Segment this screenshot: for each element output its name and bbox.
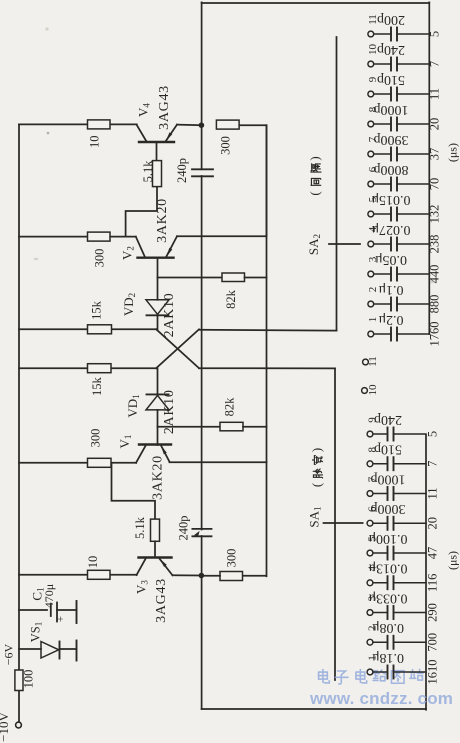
capacitor 240p lower plate2 <box>192 535 211 537</box>
svg-text:6: 6 <box>367 166 379 172</box>
svg-text:11: 11 <box>367 356 379 367</box>
wire C1 to ground bar <box>57 609 77 611</box>
svg-text:20: 20 <box>425 517 439 530</box>
resistor 15k (lower) <box>88 364 112 373</box>
label -6V <box>1 643 15 665</box>
label value 0.08u (SA1) <box>372 620 404 635</box>
label value 0.18u (SA1) <box>372 650 404 665</box>
transistor V4 emitter arrow <box>166 132 173 141</box>
svg-text:9: 9 <box>367 417 379 423</box>
label + (C1 polarity) <box>55 616 67 622</box>
label 82k (upper) <box>224 289 238 309</box>
capacitor 0.027u SA2 position 4 <box>368 238 429 251</box>
capacitor 0.100u SA1 position 5 <box>367 547 426 560</box>
svg-text:5.1k: 5.1k <box>133 516 147 539</box>
svg-text:47: 47 <box>425 547 439 560</box>
wire node B to 300 <box>202 575 220 577</box>
label 300 <box>92 249 106 268</box>
label 300 (V4 load) <box>219 136 233 155</box>
label pin 1 (SA1) <box>367 655 379 661</box>
resistor 300 (V4 emitter load) <box>216 120 239 129</box>
label value 0.027u (SA2) <box>371 222 410 237</box>
label pin 9 (SA2) <box>367 76 379 82</box>
svg-text:11: 11 <box>427 88 441 100</box>
label value 0.2u (SA2) <box>378 312 403 327</box>
wire bottom frame <box>202 708 426 710</box>
label 3AG43 (V3) <box>154 578 169 623</box>
svg-text:11: 11 <box>367 14 379 25</box>
label scale 20 us (SA1) <box>425 517 439 530</box>
label value 0.033u (SA1) <box>368 590 407 605</box>
label 2AK10 (VD1) <box>162 389 177 434</box>
label 3AK20 (V1) <box>151 455 166 500</box>
wire V4 row right (to junction node A) <box>177 124 202 127</box>
label scale 47 us (SA1) <box>425 547 439 560</box>
label value 510p (SA2) <box>377 72 405 87</box>
diode VS1 cathode bar <box>59 642 61 659</box>
label value 3900p (SA2) <box>374 132 409 147</box>
label 240p (lower) <box>176 516 190 541</box>
label pin 11 (SA1 open) <box>367 356 379 367</box>
capacitor 240p SA2 position 10 <box>368 58 429 71</box>
label scale 116 us (SA1) <box>425 574 439 592</box>
wire 300 to emitter bus (bottom corner) <box>243 575 267 577</box>
label pin 4 (SA1) <box>367 566 379 572</box>
svg-text:70: 70 <box>427 178 441 191</box>
capacitor 240p lower tick <box>194 531 200 536</box>
svg-text:10: 10 <box>87 135 101 148</box>
label pin 7 (SA2) <box>367 136 379 142</box>
node SA1 open position 11 circle <box>363 359 369 365</box>
capacitor 1000p SA2 position 8 <box>368 118 429 131</box>
label 10 (V3) <box>86 556 100 569</box>
svg-text:300: 300 <box>225 549 239 568</box>
wire left rail below resistor 100 <box>18 691 20 723</box>
svg-text:0.05μ: 0.05μ <box>375 252 407 267</box>
label pin 10 (SA1 open) <box>367 384 379 396</box>
node junction dot B (V3 emitter / long rail / 300) <box>199 573 205 579</box>
label scale 132 us (SA2) <box>427 205 441 224</box>
svg-text:www. cndzz. com: www. cndzz. com <box>309 689 453 708</box>
resistor 300 (V3 emitter load) <box>220 572 243 581</box>
label value 240p (SA2) <box>377 42 405 57</box>
svg-text:82k: 82k <box>224 289 238 309</box>
label scale 880 us (SA2) <box>427 295 441 314</box>
svg-text:290: 290 <box>425 603 439 622</box>
wire SA2 capacitor bus (right edge, top bank) <box>428 2 430 334</box>
watermark text line 1 (dianzidianlutuzhan) <box>319 669 424 684</box>
svg-text:300: 300 <box>219 136 233 155</box>
label 3AK20 (V2) <box>155 198 170 243</box>
svg-text:1760: 1760 <box>427 322 441 347</box>
transistor V1 emitter lead <box>161 445 170 462</box>
svg-text:200p: 200p <box>377 12 405 27</box>
label V3 <box>133 580 149 594</box>
capacitor C1 plate2 (long) <box>56 603 58 622</box>
svg-text:3: 3 <box>367 256 379 262</box>
svg-text:15k: 15k <box>90 376 104 396</box>
label pin 2 (SA2) <box>367 287 379 293</box>
label scale 20 us (SA2) <box>427 118 441 131</box>
label pin 6 (SA1) <box>367 506 379 512</box>
resistor 82k (upper) <box>222 273 245 282</box>
capacitor 240p upper plate2 <box>192 175 213 177</box>
resistor 15k (upper) <box>88 325 112 334</box>
wire VS1 to ground bar <box>60 648 77 650</box>
svg-text:8: 8 <box>367 106 379 112</box>
label pin 5 (SA1) <box>367 536 379 542</box>
label 82k (lower) <box>222 397 236 417</box>
transistor V3 emitter arrow <box>160 559 167 568</box>
capacitor 8000p SA2 position 6 <box>368 178 429 191</box>
wire top frame (emitter common net, top edge) <box>202 2 430 4</box>
svg-text:6: 6 <box>367 506 379 512</box>
label VD2 <box>121 293 137 316</box>
label pin 2 (SA1) <box>367 625 379 631</box>
svg-text:4: 4 <box>367 566 379 572</box>
resistor 82k (lower) <box>220 422 243 431</box>
label 2AK10 (VD2) <box>162 293 177 338</box>
svg-text:2: 2 <box>367 287 379 293</box>
svg-text:2: 2 <box>367 625 379 631</box>
resistor 300 (V1 collector row) <box>88 458 112 467</box>
capacitor 0.033u SA1 position 3 <box>367 606 426 619</box>
svg-text:3AG43: 3AG43 <box>157 85 172 130</box>
label C1 <box>29 587 45 600</box>
svg-text:5: 5 <box>367 196 379 202</box>
label 240p (upper) <box>175 158 189 183</box>
svg-text:240p: 240p <box>175 158 189 183</box>
label 300 (V1) <box>88 429 102 448</box>
svg-text:2AK10: 2AK10 <box>162 293 177 338</box>
svg-text:300: 300 <box>88 429 102 448</box>
svg-text:−10V: −10V <box>0 712 11 742</box>
svg-text:5.1k: 5.1k <box>141 160 155 183</box>
label pin 7 (SA1) <box>367 476 379 482</box>
svg-text:4: 4 <box>367 226 379 232</box>
svg-text:10: 10 <box>86 556 100 569</box>
diode VD1 triangle <box>146 395 169 410</box>
label VD1 <box>125 394 141 417</box>
label 100 <box>22 670 36 689</box>
wire left long rail x=201.6 upper segment (to 240p C top plate) <box>201 2 203 169</box>
svg-text:): ) <box>307 156 322 160</box>
wire V2 base down <box>157 258 159 300</box>
svg-text:3AK20: 3AK20 <box>155 198 170 243</box>
transistor V2 base bar <box>138 257 174 259</box>
svg-text:7: 7 <box>367 476 379 482</box>
watermark text line 2 (www.cndzz.com) <box>309 689 453 708</box>
resistor 5.1k (V3 base) <box>151 519 160 541</box>
resistor 5.1k (V4 base) <box>153 161 162 187</box>
label pin 8 (SA1) <box>367 447 379 453</box>
ground bar (VS1) <box>76 641 78 661</box>
svg-text:8: 8 <box>367 447 379 453</box>
label 10 <box>87 135 101 148</box>
resistor 10 (V3 row) <box>88 570 111 579</box>
label pin 3 (SA2) <box>367 256 379 262</box>
label scale 37 us (SA2) <box>427 148 441 161</box>
label value 200p (SA2) <box>377 12 405 27</box>
resistor 300 (V2 collector row) <box>88 232 111 241</box>
capacitor 240p lower plate1 <box>192 528 211 530</box>
wire 82k lower to emitter bus <box>243 426 267 428</box>
wire rail4 right segment to SA1 wiper <box>199 367 335 369</box>
svg-text:1: 1 <box>367 317 379 323</box>
label pin 8 (SA2) <box>367 106 379 112</box>
label 470u <box>42 584 56 608</box>
label value 0.013u (SA1) <box>368 561 407 576</box>
label (maikuan pulse-width) for SA1 <box>309 448 324 487</box>
wire VD2 cathode to rail3 corner <box>157 315 159 329</box>
label V2 <box>119 246 135 260</box>
label 5.1k (V3) <box>133 516 147 539</box>
svg-text:880: 880 <box>427 295 441 314</box>
label (jiange interval) for SA2 <box>307 156 322 195</box>
svg-text:132: 132 <box>427 205 441 224</box>
label -10V <box>0 712 11 742</box>
label scale 5 us (SA2) <box>427 31 441 37</box>
wire rail V3 row <box>19 574 137 576</box>
capacitor 0.015u SA2 position 5 <box>368 208 429 221</box>
wire V1 base to 82k <box>158 426 221 428</box>
wire V2 base to 82k <box>158 277 223 279</box>
svg-text:470μ: 470μ <box>42 584 56 608</box>
label pin 4 (SA2) <box>367 226 379 232</box>
svg-text:20: 20 <box>427 118 441 131</box>
transistor V3 base bar <box>139 556 172 558</box>
svg-text:): ) <box>309 448 324 452</box>
svg-text:(μs): (μs) <box>445 551 459 570</box>
svg-text:7: 7 <box>427 61 441 67</box>
label scale 11 us (SA1) <box>425 487 439 499</box>
capacitor 240p SA1 position 9 <box>367 428 426 441</box>
switch SA1 wiper contact tick <box>324 522 363 524</box>
svg-text:5: 5 <box>427 31 441 37</box>
label V4 <box>135 103 151 117</box>
wire jog V1 rail to 5.1k (V3 base) <box>112 463 156 519</box>
svg-text:3: 3 <box>367 595 379 601</box>
capacitor C1 plate1 <box>50 604 52 616</box>
label value 1000p (SA1) <box>371 471 406 486</box>
wire rail V2 collector row <box>19 236 136 238</box>
label value 8000p (SA2) <box>374 162 409 177</box>
capacitor 0.18u SA1 position 1 <box>367 666 426 679</box>
capacitor 510p SA2 position 9 <box>368 88 429 101</box>
wire rail 15k upper row <box>19 328 156 330</box>
label scale 70 us (SA2) <box>427 178 441 191</box>
svg-text:100: 100 <box>22 670 36 689</box>
wire V2 emitter to bus <box>177 235 267 237</box>
wire SA1 capacitor bus (right edge, bottom bank) <box>425 435 427 710</box>
capacitor 1000p SA1 position 7 <box>367 487 426 500</box>
label (us) SA2 <box>446 143 460 162</box>
label scale 5 us (SA1) <box>425 431 439 437</box>
svg-text:116: 116 <box>425 574 439 592</box>
label pin 10 (SA2) <box>367 44 379 56</box>
transistor V4 emitter lead (right diagonal) <box>166 125 178 142</box>
label pin 11 (SA2) <box>367 14 379 25</box>
wire crossover diagonal D1 <box>156 329 199 368</box>
svg-text:37: 37 <box>427 148 441 161</box>
transistor V2 collector lead <box>136 237 145 258</box>
svg-text:7: 7 <box>425 461 439 467</box>
wire 5.1k to V3 base <box>154 541 156 557</box>
capacitor 0.05u SA2 position 3 <box>368 268 429 281</box>
label (us) SA1 <box>445 551 459 570</box>
capacitor 510p SA1 position 8 <box>367 457 426 470</box>
label scale 7 us (SA2) <box>427 61 441 67</box>
wire emitter bus vertical <box>266 125 268 576</box>
label 5.1k (V4) <box>141 160 155 183</box>
label scale 238 us (SA2) <box>427 235 441 254</box>
capacitor 0.08u SA1 position 2 <box>367 636 426 649</box>
wire rail3 right segment to SA2 wiper <box>199 329 337 332</box>
ground bar (C1) <box>76 601 78 623</box>
wire rail V4 row (left) <box>19 123 137 125</box>
transistor V4 base bar <box>139 141 174 143</box>
svg-text:+: + <box>55 616 67 622</box>
label pin 1 (SA2) <box>367 317 379 323</box>
label pin 6 (SA2) <box>367 166 379 172</box>
svg-text:−6V: −6V <box>1 643 15 665</box>
label value 0.1u (SA2) <box>378 282 403 297</box>
svg-text:3AG43: 3AG43 <box>154 578 169 623</box>
label value 1000p (SA2) <box>374 102 409 117</box>
svg-text:11: 11 <box>425 487 439 499</box>
wire rail to VS1 <box>19 648 41 650</box>
transistor V3 emitter lead <box>159 558 173 575</box>
label value 510p (SA1) <box>374 442 402 457</box>
capacitor 200p SA2 position 11 <box>368 28 429 41</box>
wire 300 to emitter bus corner <box>239 125 266 236</box>
svg-text:5: 5 <box>367 536 379 542</box>
svg-text:300: 300 <box>92 249 106 268</box>
resistor 100 (vertical box in -10V lead) <box>15 670 23 691</box>
label value 3000p (SA1) <box>371 501 406 516</box>
svg-text:238: 238 <box>427 235 441 254</box>
capacitor 0.2u SA2 position 1 <box>368 328 429 341</box>
svg-text:440: 440 <box>427 265 441 284</box>
label 15k upper <box>90 300 104 320</box>
svg-text:0.1μ: 0.1μ <box>378 282 403 297</box>
wire SA1 wiper line <box>334 368 336 680</box>
diode VD2 cathode bar <box>147 314 169 316</box>
svg-text:3AK20: 3AK20 <box>151 455 166 500</box>
svg-text:5: 5 <box>425 431 439 437</box>
transistor V2 emitter arrow <box>166 248 172 257</box>
label V1 <box>117 435 133 449</box>
transistor V1 base bar <box>139 443 171 445</box>
wire V1 emitter to bus <box>170 461 267 463</box>
wire left long rail x=201.6 middle segment (between 240p caps) <box>201 176 203 530</box>
label scale 7 us (SA1) <box>425 461 439 467</box>
svg-text:0.2μ: 0.2μ <box>378 312 403 327</box>
label value 0.015u (SA2) <box>371 192 410 207</box>
label 300 (V3 load) <box>225 549 239 568</box>
label pin 9 (SA1) <box>367 417 379 423</box>
wire V4 base to 5.1k <box>156 142 158 161</box>
label scale 1760 us (SA2) <box>427 322 441 347</box>
capacitor 3900p SA2 position 7 <box>368 148 429 161</box>
svg-text:(μs): (μs) <box>446 143 460 162</box>
transistor V4 collector lead (left diagonal) <box>137 125 147 142</box>
svg-text:240p: 240p <box>377 42 405 57</box>
wire rail to C1 <box>19 609 47 611</box>
wire VD1 cathode to rail4 <box>157 368 159 394</box>
label scale 440 us (SA2) <box>427 265 441 284</box>
label 3AG43 (V4) <box>157 85 172 130</box>
svg-text:9: 9 <box>367 76 379 82</box>
label pin 5 (SA2) <box>367 196 379 202</box>
wire left long rail x=201.6 lower segment (from 240p C bottom plate to bottom frame) <box>201 536 203 709</box>
svg-text:15k: 15k <box>90 300 104 320</box>
wire jog 5.1k to V2 collector rail <box>126 187 157 237</box>
node -10V terminal circle <box>16 722 22 728</box>
label SA1 <box>306 506 322 527</box>
node SA1 open position 10 circle <box>362 388 368 394</box>
svg-text:10: 10 <box>367 384 379 396</box>
label VS1 <box>28 622 43 642</box>
svg-text:510p: 510p <box>377 72 405 87</box>
label 15k lower <box>90 376 104 396</box>
wire -6V left rail vertical <box>18 124 20 669</box>
svg-text:(: ( <box>309 483 324 487</box>
switch SA2 wiper contact tick <box>329 243 360 245</box>
svg-text:(: ( <box>307 191 322 195</box>
svg-text:82k: 82k <box>222 397 236 417</box>
diode VS1 zener triangle <box>41 642 59 659</box>
label value 240p (SA1) <box>374 412 402 427</box>
diode VD1 cathode bar <box>147 393 169 395</box>
label value 0.100u (SA1) <box>368 531 407 546</box>
label scale 11 us (SA2) <box>427 88 441 100</box>
label scale 700 us (SA1) <box>425 633 439 652</box>
capacitor 0.013u SA1 position 4 <box>367 576 426 589</box>
capacitor 240p upper plate1 <box>192 168 213 170</box>
svg-text:1610: 1610 <box>425 660 439 685</box>
label SA2 <box>306 234 322 255</box>
wire 82k to emitter bus <box>245 277 267 279</box>
svg-text:1: 1 <box>367 655 379 661</box>
transistor V2 emitter lead <box>166 236 177 257</box>
transistor V1 emitter arrow <box>161 445 167 454</box>
label value 0.05u (SA2) <box>375 252 407 267</box>
svg-text:700: 700 <box>425 633 439 652</box>
wire rail 15k lower row <box>19 367 156 369</box>
svg-text:7: 7 <box>367 136 379 142</box>
wire V3 emitter to node B <box>173 574 202 576</box>
label scale 290 us (SA1) <box>425 603 439 622</box>
capacitor 0.1u SA2 position 2 <box>368 298 429 311</box>
label pin 3 (SA1) <box>367 595 379 601</box>
transistor V1 collector lead <box>136 445 146 463</box>
resistor 10 (V4 emitter-left row) <box>88 120 111 129</box>
diode VD2 triangle <box>146 300 169 315</box>
capacitor 3000p SA1 position 6 <box>367 517 426 530</box>
wire rail V1 collector row <box>19 462 136 464</box>
svg-text:240p: 240p <box>176 516 190 541</box>
label scale 1610 us (SA1) <box>425 660 439 685</box>
wire VD1 anode to V1 base <box>157 410 159 445</box>
node junction dot A (V4 emitter / long rail / 300) <box>199 122 205 128</box>
transistor V3 collector lead <box>137 558 147 575</box>
wire crossover diagonal D2 <box>156 329 199 368</box>
wire SA2 wiper line <box>336 37 338 331</box>
svg-text:10: 10 <box>367 44 379 56</box>
